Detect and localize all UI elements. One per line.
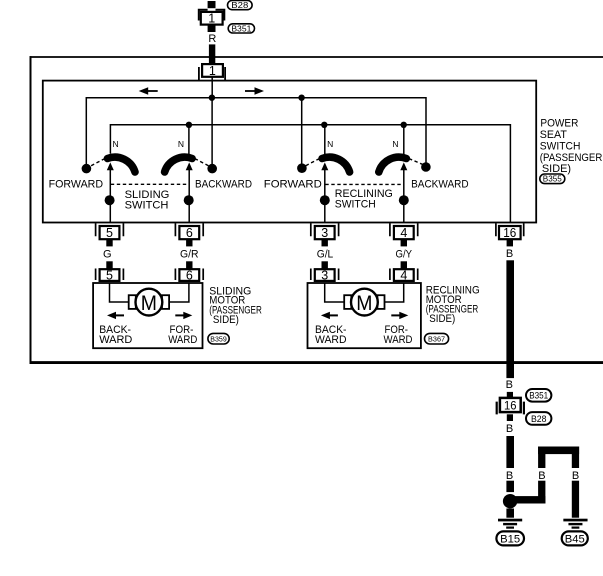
- ground symbol B15: [498, 519, 522, 522]
- switch internal boundary box: [43, 81, 536, 223]
- connector pin 6 (sliding motor side): [186, 261, 192, 268]
- node on reclining right wiper wire: [399, 195, 409, 205]
- svg-text:3: 3: [321, 226, 328, 240]
- supply bus wire (down to FORWARD / BACKWARD contacts): [86, 98, 426, 169]
- reclining motor left brush: [344, 295, 351, 309]
- wire B (thick) pin16 to body ground: [506, 260, 514, 378]
- connector label B351: [526, 389, 551, 402]
- wire middle leg lower segment: [538, 481, 545, 504]
- wire sliding right wiper to pin 6: [188, 170, 190, 223]
- svg-text:BACKWARD: BACKWARD: [411, 178, 469, 190]
- connector M1 bracket: [199, 10, 225, 21]
- wire from supply junction to reclining FORWARD contact: [301, 98, 303, 165]
- svg-text:6: 6: [186, 268, 193, 282]
- svg-text:B45: B45: [565, 533, 585, 545]
- wire junction to ground B15: [506, 509, 514, 518]
- reclining motor box: [308, 283, 421, 348]
- wire from supply junction to sliding BACKWARD contact: [211, 98, 213, 165]
- reclining switch mechanical link (dashed): [325, 183, 403, 185]
- connector pin 4 (reclining motor side): [401, 261, 407, 268]
- wire stub below connector M1: [208, 25, 216, 32]
- wire right leg upper segment: [572, 447, 579, 469]
- connector label B28: [228, 1, 253, 10]
- connector label B28: [526, 412, 551, 425]
- BACKWARD contact node (reclining): [421, 162, 431, 172]
- svg-text:N: N: [178, 139, 184, 149]
- reclining switch left pole wiper arc: [322, 157, 350, 172]
- connector M2 pin 16 (B351/B28 joint): [500, 398, 521, 412]
- current direction arrow (left): [139, 87, 149, 95]
- wire pin3 to motor brush: [325, 283, 345, 302]
- svg-text:6: 6: [186, 226, 193, 240]
- svg-text:G/R: G/R: [180, 249, 199, 261]
- node on reclining left wiper wire: [320, 195, 330, 205]
- svg-text:B: B: [506, 248, 513, 260]
- svg-text:SIDE): SIDE): [213, 314, 239, 326]
- svg-text:SWITCH: SWITCH: [335, 199, 376, 211]
- sliding switch mechanical link (dashed): [111, 183, 189, 185]
- svg-text:B28: B28: [231, 1, 249, 10]
- svg-text:B: B: [506, 379, 513, 391]
- svg-text:POWER: POWER: [540, 118, 578, 130]
- sliding left wiper arrowhead: [107, 162, 114, 170]
- svg-text:SIDE): SIDE): [429, 313, 455, 325]
- connector label B367: [425, 333, 449, 344]
- svg-text:16: 16: [504, 399, 517, 413]
- connector pin 6 (switch side): [175, 223, 203, 236]
- svg-text:M: M: [356, 291, 372, 315]
- svg-text:SIDE): SIDE): [542, 163, 571, 175]
- svg-text:FORWARD: FORWARD: [49, 178, 104, 190]
- power seat switch outer boundary bottom edge: [30, 361, 603, 364]
- svg-text:WARD: WARD: [168, 334, 197, 346]
- wire pin6 to motor brush: [169, 283, 189, 302]
- svg-text:4: 4: [400, 226, 407, 240]
- connector label B359: [208, 333, 229, 344]
- svg-text:WARD: WARD: [384, 334, 413, 346]
- connector label B351: [228, 24, 254, 33]
- wire stub below connector M2: [507, 414, 513, 421]
- sliding motor left brush: [129, 295, 136, 309]
- wire B (thick) to ground junction: [506, 436, 514, 468]
- wire stub above connector M1: [208, 1, 216, 8]
- sliding motor right brush: [162, 295, 169, 309]
- junction node on supply bus at pin1 wire: [209, 95, 215, 101]
- power seat switch outer boundary top edge: [30, 56, 603, 58]
- sliding right wiper arrowhead: [186, 162, 193, 170]
- BACKWARD contact node (sliding): [207, 164, 217, 174]
- svg-text:3: 3: [321, 268, 328, 282]
- junction node wiper bus / reclining switch left pole: [321, 122, 327, 128]
- svg-text:SEAT: SEAT: [540, 129, 567, 141]
- svg-text:WARD: WARD: [315, 334, 347, 346]
- reclining right wiper arrowhead: [400, 162, 407, 170]
- wire sliding left wiper to pin 5: [109, 170, 111, 223]
- svg-text:B: B: [506, 470, 513, 482]
- sliding switch right pole wiper arc: [165, 157, 193, 172]
- sliding motor box: [93, 283, 202, 348]
- svg-text:5: 5: [106, 268, 113, 282]
- FORWARD contact node (sliding): [82, 164, 92, 174]
- dashed contact line to BACKWARD contact: [195, 159, 211, 167]
- dashed contact line to BACKWARD contact (reclining): [409, 159, 425, 166]
- wire top bridge to right leg: [538, 447, 579, 455]
- wire right leg to ground B45: [572, 481, 579, 518]
- connector pin 3 (reclining motor side): [322, 261, 328, 268]
- wire pin5 to motor brush: [110, 283, 129, 302]
- ground label B45: [562, 531, 588, 545]
- svg-text:16: 16: [503, 226, 516, 240]
- wire from pin 1 to supply node: [211, 77, 213, 98]
- connector pin 5 (sliding motor side): [106, 261, 112, 268]
- wire wiper bus to reclining right wiper: [403, 125, 405, 156]
- reclining motor M2: [351, 289, 378, 316]
- svg-text:B: B: [506, 423, 513, 435]
- svg-text:B28: B28: [531, 414, 547, 425]
- svg-text:WARD: WARD: [99, 334, 132, 346]
- reclining motor right brush: [377, 295, 384, 309]
- forward direction arrow (sliding): [183, 312, 192, 319]
- svg-text:N: N: [392, 139, 398, 149]
- svg-text:B: B: [572, 470, 579, 482]
- svg-text:N: N: [327, 139, 333, 149]
- ground junction node: [503, 494, 517, 508]
- connector pin 3 (switch side): [311, 223, 339, 236]
- svg-text:1: 1: [208, 12, 215, 26]
- connector pin 16 (switch side): [496, 223, 524, 236]
- connector pin 1 of power seat switch: [202, 64, 223, 77]
- svg-text:N: N: [113, 139, 119, 149]
- svg-text:4: 4: [400, 268, 407, 282]
- sliding switch left pole wiper arc: [108, 157, 136, 172]
- backward direction arrow (reclining): [321, 312, 330, 319]
- svg-text:B: B: [538, 470, 545, 482]
- junction node wiper bus / reclining switch right pole: [401, 122, 407, 128]
- svg-text:B359: B359: [210, 334, 227, 343]
- wiper return bus wire to pin 16: [110, 125, 510, 223]
- wire wiper bus to reclining left wiper: [324, 125, 326, 156]
- svg-text:B351: B351: [231, 24, 252, 33]
- svg-text:B367: B367: [428, 334, 445, 343]
- svg-text:B351: B351: [529, 391, 548, 402]
- ground label B15: [496, 531, 524, 545]
- FORWARD contact node (reclining): [297, 163, 307, 173]
- svg-text:SWITCH: SWITCH: [125, 200, 169, 212]
- wire B continues to junction: [506, 481, 514, 492]
- wire branch junction to second ground leg: [513, 496, 545, 503]
- connector M1 pin 1 (B28/B351 joint): [201, 12, 223, 25]
- current direction arrow (right): [255, 87, 265, 95]
- svg-text:FORWARD: FORWARD: [264, 178, 322, 190]
- node on sliding left wiper wire: [105, 195, 115, 205]
- svg-text:5: 5: [106, 226, 113, 240]
- sliding motor M1: [136, 289, 163, 316]
- svg-text:M: M: [141, 291, 157, 315]
- connector M2 bracket: [497, 402, 524, 415]
- svg-text:G: G: [103, 249, 112, 261]
- dashed contact line to FORWARD contact: [89, 159, 105, 167]
- wire reclining right wiper to pin 4: [403, 170, 405, 223]
- reclining left wiper arrowhead: [321, 162, 328, 170]
- connector pin 1 bracket (switch internal): [199, 67, 225, 80]
- dashed contact line to FORWARD contact (reclining): [304, 159, 320, 167]
- svg-text:G/L: G/L: [317, 249, 334, 261]
- wire middle leg upper segment: [538, 447, 545, 469]
- backward direction arrow (sliding): [107, 312, 116, 319]
- reclining switch right pole wiper arc: [379, 157, 407, 172]
- connector label B355: [540, 174, 565, 184]
- svg-text:1: 1: [209, 64, 216, 78]
- svg-text:B355: B355: [543, 175, 563, 184]
- wire stub above connector M2: [507, 392, 513, 398]
- junction node on supply bus feeding reclining FORWARD contact: [298, 95, 304, 101]
- wire R (thick) from connector M1 into switch: [209, 44, 215, 64]
- forward direction arrow (reclining): [399, 312, 408, 319]
- connector pin 5 (switch side): [96, 223, 124, 236]
- wire reclining left wiper to pin 3: [324, 170, 326, 223]
- svg-text:BACKWARD: BACKWARD: [195, 178, 252, 190]
- svg-text:R: R: [208, 33, 216, 45]
- wire pin4 to motor brush: [385, 283, 404, 302]
- wire wiper bus to sliding right wiper: [188, 125, 190, 156]
- svg-text:G/Y: G/Y: [396, 249, 413, 261]
- connector pin 4 (switch side): [390, 223, 418, 236]
- svg-text:B15: B15: [500, 533, 520, 545]
- ground symbol B45: [563, 519, 587, 522]
- power seat switch outer boundary left edge: [30, 56, 32, 364]
- node on sliding right wiper wire: [184, 195, 194, 205]
- junction node wiper bus / sliding switch right pole: [186, 122, 192, 128]
- svg-text:SWITCH: SWITCH: [540, 140, 581, 152]
